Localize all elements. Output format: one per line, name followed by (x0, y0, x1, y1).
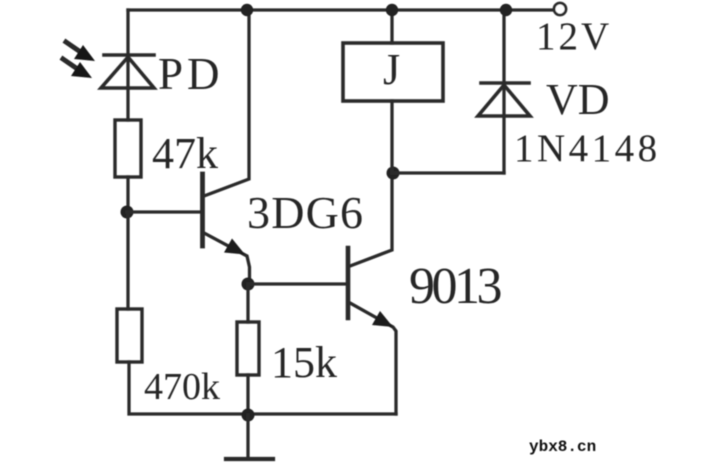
resistor R3 15k body (237, 322, 259, 375)
node G junction dot (ground node) (242, 409, 255, 422)
wire node B to Q2 base (248, 282, 346, 285)
relay J coil box (343, 43, 443, 101)
wire relay bottom to node C (390, 101, 393, 173)
svg-text:47k: 47k (152, 129, 218, 178)
light arrow 2 (63, 59, 92, 78)
svg-text:J: J (383, 45, 400, 94)
wire relay branch from rail (390, 10, 393, 43)
wire VD branch (rail through VD down to node C wire) (502, 10, 505, 173)
wire top rail (128, 8, 554, 11)
svg-text:VD: VD (546, 75, 610, 124)
wire R2 to bottom rail (129, 362, 396, 414)
transistor Q1 3DG6 base bar (200, 174, 205, 246)
wire node A to Q1 base (127, 210, 201, 213)
svg-text:PD: PD (158, 49, 224, 99)
svg-text:9013: 9013 (409, 258, 501, 315)
transistor Q2 collector wire to node C (350, 173, 392, 266)
light arrow 1 (66, 42, 95, 61)
transistor Q1 collector wire to top rail (204, 10, 249, 196)
wire node B to R3 (246, 284, 249, 322)
transistor Q2 emitter wire (350, 303, 396, 414)
svg-text:1N4148: 1N4148 (514, 127, 661, 170)
svg-text:12V: 12V (536, 15, 612, 58)
wire R3 to ground node (246, 375, 249, 415)
ground symbol (226, 415, 273, 459)
transistor Q1 emitter wire (204, 233, 250, 284)
transistor Q2 9013 base bar (346, 248, 351, 318)
transistor Q2 emitter arrowhead (372, 311, 393, 327)
resistor R1 47k body (115, 120, 141, 177)
transistor Q1 emitter arrowhead (224, 239, 245, 255)
wire node A to R2 (126, 212, 129, 309)
wire left column (rail through PD down to R1) (126, 10, 129, 120)
svg-text:3DG6: 3DG6 (247, 187, 364, 238)
svg-text:ybx8.cn: ybx8.cn (529, 438, 596, 456)
node top rail junction dot 3 (500, 4, 512, 16)
node top rail junction dot 2 (386, 4, 398, 16)
photodiode PD symbol (101, 55, 154, 88)
node A junction dot (121, 206, 134, 219)
node C junction dot (relay / Q2 collector / VD) (387, 167, 400, 180)
svg-text:15k: 15k (271, 338, 337, 387)
terminal 12V (554, 3, 566, 15)
wire R1 to node A (126, 177, 129, 212)
node B junction dot (Q1 emitter / Q2 base / R3) (242, 278, 255, 291)
node top rail junction dot 1 (241, 4, 253, 16)
resistor R2 470k body (117, 309, 142, 362)
svg-text:470k: 470k (144, 366, 220, 408)
wire node C to VD bottom (393, 171, 504, 174)
diode VD symbol (478, 83, 530, 116)
